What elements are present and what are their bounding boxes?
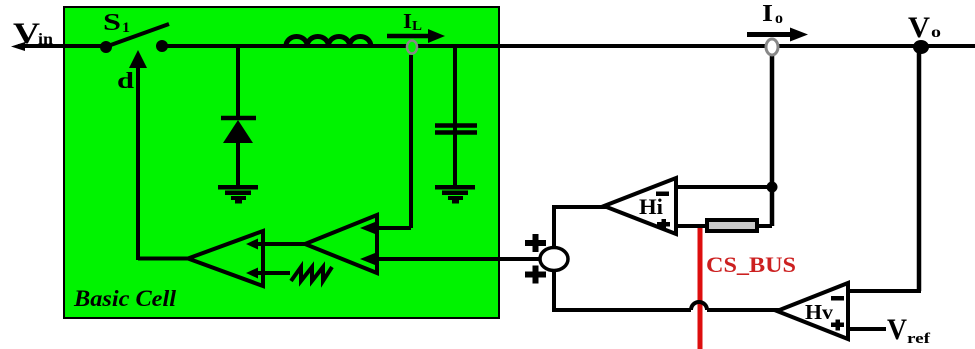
svg-text:o: o <box>775 10 783 27</box>
svg-text:L: L <box>412 19 422 34</box>
svg-text:Hv: Hv <box>805 300 834 324</box>
svg-text:S: S <box>103 10 121 36</box>
svg-text:V: V <box>13 17 40 50</box>
svg-text:in: in <box>38 31 53 48</box>
svg-text:I: I <box>762 1 773 27</box>
svg-text:Basic Cell: Basic Cell <box>73 286 177 311</box>
svg-text:d: d <box>117 68 134 93</box>
svg-text:V: V <box>908 11 930 44</box>
svg-text:Hi: Hi <box>639 194 663 219</box>
svg-text:I: I <box>403 9 412 33</box>
svg-text:CS_BUS: CS_BUS <box>706 252 796 277</box>
svg-text:V: V <box>887 313 907 346</box>
svg-text:1: 1 <box>122 20 130 36</box>
svg-text:o: o <box>931 24 941 41</box>
svg-text:ref: ref <box>907 331 931 347</box>
